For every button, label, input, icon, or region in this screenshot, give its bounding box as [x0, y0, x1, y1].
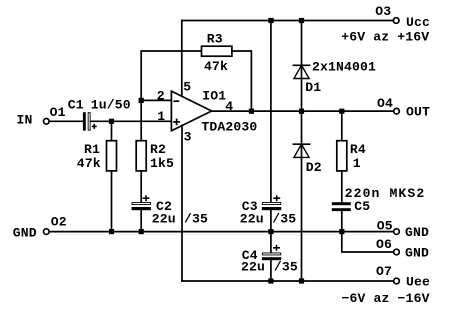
capacitor C5 (220n MKS2): [332, 202, 351, 211]
wire: C3 to GND rail: [270, 210, 272, 231]
svg-text:22u: 22u: [240, 212, 264, 227]
capacitor C1 (1u/50 polarized): [83, 112, 97, 130]
svg-text:O4: O4: [377, 96, 393, 111]
resistor R1: [107, 141, 117, 171]
wire: pin 2 stub: [141, 99, 171, 101]
wire: feedback riser up to R3: [141, 51, 201, 100]
wire: R1 to GND rail: [111, 171, 113, 232]
wire: Ucc down to C3: [270, 21, 272, 203]
svg-text:5: 5: [183, 79, 191, 94]
node: junction Uee rail / D2: [299, 278, 304, 283]
node: junction input / R1: [109, 119, 114, 124]
svg-text:O5: O5: [377, 219, 393, 234]
terminal O4 (OUT): [394, 108, 400, 114]
svg-text:/35: /35: [184, 212, 208, 227]
svg-text:−6V az −16V: −6V az −16V: [342, 291, 430, 306]
wire: D1 to output line: [301, 65, 303, 111]
svg-text:IO1: IO1: [202, 89, 226, 104]
svg-text:2x1N4001: 2x1N4001: [312, 60, 376, 75]
resistor R4: [337, 141, 347, 171]
svg-text:D2: D2: [306, 160, 322, 175]
svg-text:O2: O2: [51, 215, 67, 230]
svg-text:47k: 47k: [77, 156, 101, 171]
svg-text:Ucc: Ucc: [406, 15, 430, 30]
node: junction Ucc rail / C3 column: [268, 18, 273, 23]
svg-text:+6V az +16V: +6V az +16V: [341, 30, 429, 45]
svg-text:O1: O1: [50, 105, 66, 120]
svg-text:C5: C5: [354, 199, 370, 214]
node: junction output / R4: [339, 109, 344, 114]
wire: Uee bottom rail: [182, 280, 393, 282]
capacitor C3 (22u/35 polarized): [262, 195, 281, 210]
svg-text:OUT: OUT: [406, 105, 430, 120]
wire: R3 right side down to output: [232, 51, 252, 111]
svg-text:IN: IN: [17, 113, 33, 128]
wire: C4 to Uee rail: [270, 260, 272, 281]
node: junction pin2 / R2 / R3 riser: [139, 98, 144, 103]
wire: output to R4: [341, 111, 343, 141]
svg-text:/35: /35: [272, 212, 296, 227]
terminal O2 (GND left): [44, 229, 50, 235]
svg-text:1: 1: [353, 156, 361, 171]
capacitor C4 (22u/35 polarized): [262, 245, 281, 260]
wire: D2 to Uee rail: [301, 144, 303, 281]
svg-text:3: 3: [184, 129, 192, 144]
op-amp IO1 (TDA2030): [171, 91, 211, 131]
terminal O7 (Uee): [394, 278, 400, 284]
wire: output line to D2: [301, 111, 303, 144]
svg-text:R3: R3: [207, 32, 223, 47]
node: junction GND rail / C5: [339, 229, 344, 234]
capacitor C2 (22u/35 polarized): [132, 195, 151, 210]
wire: GND rail: [49, 231, 393, 233]
svg-text:O7: O7: [376, 264, 392, 279]
svg-text:R2: R2: [150, 142, 166, 157]
svg-text:GND: GND: [13, 225, 37, 240]
wire: R4 to C5: [341, 171, 343, 202]
node: junction GND rail / C2: [139, 229, 144, 234]
svg-text:O6: O6: [376, 237, 392, 252]
wire: pin 3 down to Uee rail: [181, 126, 183, 282]
terminal O5 (GND): [394, 229, 400, 235]
terminal O1 (IN): [44, 119, 50, 125]
svg-text:47k: 47k: [204, 59, 228, 74]
svg-text:C1: C1: [68, 98, 84, 113]
node: junction GND rail / R1: [109, 229, 114, 234]
wire: C5 to GND rail: [341, 211, 343, 232]
resistor R3: [202, 46, 232, 56]
svg-text:GND: GND: [405, 225, 429, 240]
wire: C2 to GND rail: [140, 210, 142, 231]
svg-text:O3: O3: [375, 4, 391, 19]
wire: output line pin4 to O4: [212, 110, 394, 112]
diode D1 (cathode bar + triangle): [293, 65, 309, 78]
svg-text:TDA2030: TDA2030: [201, 119, 257, 134]
resistor R2: [136, 141, 146, 171]
terminal O6 (GND): [394, 249, 400, 255]
node: junction Ucc rail / D1 column: [299, 18, 304, 23]
svg-text:1k5: 1k5: [150, 156, 174, 171]
svg-text:/35: /35: [274, 259, 298, 274]
node: junction GND rail / C3 C4: [268, 229, 273, 234]
wire: top Ucc rail: [182, 20, 393, 22]
wire: O1 to C1: [49, 120, 83, 122]
svg-text:R4: R4: [350, 142, 366, 157]
node: junction Uee rail / C4: [268, 278, 273, 283]
wire: pin 5 riser to Ucc rail: [181, 21, 183, 97]
wire: input junction down to R1: [111, 121, 113, 140]
svg-text:R1: R1: [84, 142, 100, 157]
wire: Ucc down to D1: [301, 21, 303, 66]
wire: C1 to pin 1: [91, 120, 172, 122]
svg-text:22u: 22u: [152, 212, 176, 227]
node: junction output / R3: [249, 109, 254, 114]
node: junction output / diodes: [299, 109, 304, 114]
wire: O6 branch from GND rail: [342, 232, 394, 252]
svg-text:1u/50: 1u/50: [91, 98, 131, 113]
svg-text:D1: D1: [305, 80, 321, 95]
svg-text:GND: GND: [405, 245, 429, 260]
terminal O3 (Ucc): [393, 18, 399, 24]
wire: R2 to C2: [140, 171, 142, 202]
svg-text:22u: 22u: [241, 259, 265, 274]
svg-text:Uee: Uee: [406, 275, 430, 290]
diode D2 (cathode bar + triangle): [293, 144, 309, 157]
wire: R2 riser (crosses input line): [140, 100, 142, 140]
wire: GND rail to C4: [270, 232, 272, 253]
